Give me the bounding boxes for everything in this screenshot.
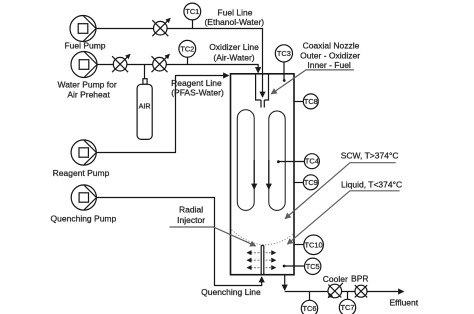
node TC3 dot inside reactor top <box>283 62 286 82</box>
svg-text:(PFAS-Water): (PFAS-Water) <box>171 88 224 98</box>
svg-text:TC6: TC6 <box>303 304 317 313</box>
svg-text:TC5: TC5 <box>306 262 320 271</box>
svg-text:Water Pump for: Water Pump for <box>57 79 116 89</box>
wire TC6 stem <box>309 292 311 301</box>
radial injector arrows left <box>247 253 259 268</box>
svg-text:Oxidizer Line: Oxidizer Line <box>209 42 259 52</box>
wire TC2 stem <box>187 57 189 64</box>
TC10 thermocouple <box>304 235 324 255</box>
TC7 thermocouple <box>339 299 355 314</box>
svg-text:Reagent Pump: Reagent Pump <box>53 168 110 178</box>
coaxial nozzle inner tube <box>261 100 264 108</box>
svg-text:AIR: AIR <box>139 102 151 111</box>
svg-text:SCW, T>374°C: SCW, T>374°C <box>341 151 399 161</box>
valve 2 on oxidizer line <box>152 54 170 72</box>
valve BPR <box>355 285 367 297</box>
wire oxidizer line <box>97 65 258 73</box>
TC2 thermocouple <box>179 40 196 57</box>
node TC8 stem <box>294 101 303 103</box>
TC8 thermocouple <box>303 94 318 109</box>
svg-text:Quenching Pump: Quenching Pump <box>51 214 117 224</box>
wire quenching line pump to reactor bottom <box>97 198 262 286</box>
node TC5 dot and lead <box>283 265 305 268</box>
liquid level dashed curve <box>232 230 295 245</box>
svg-text:(Air-Water): (Air-Water) <box>213 53 254 63</box>
svg-text:Outer - Oxidizer: Outer - Oxidizer <box>300 51 360 61</box>
svg-text:Fuel Pump: Fuel Pump <box>64 41 105 51</box>
TC6 thermocouple <box>301 300 317 314</box>
svg-text:Injector: Injector <box>177 215 205 225</box>
valve on fuel line <box>152 18 170 36</box>
svg-text:TC10: TC10 <box>305 240 323 249</box>
wire TC7 stem <box>347 292 349 300</box>
svg-text:Reagent Line: Reagent Line <box>171 78 222 88</box>
svg-text:TC8: TC8 <box>304 97 318 106</box>
leader Radial Injector <box>170 227 256 246</box>
svg-text:Radial: Radial <box>179 204 203 214</box>
coaxial nozzle outer tube <box>256 74 269 100</box>
svg-text:TC2: TC2 <box>180 44 194 53</box>
svg-text:TC4: TC4 <box>305 157 319 166</box>
svg-text:TC9: TC9 <box>304 178 318 187</box>
TC9 thermocouple <box>303 175 318 190</box>
flow loop right (stadium with down arrow) <box>269 111 285 210</box>
svg-text:Quenching Line: Quenching Line <box>201 287 261 297</box>
svg-text:TC3: TC3 <box>277 49 291 58</box>
TC1 thermocouple <box>184 3 201 20</box>
valve Cooler <box>328 283 343 298</box>
wire reagent line pump to reactor <box>97 76 229 153</box>
wire fuel continues into nozzle (redraw over) <box>262 75 264 98</box>
wire fuel line horizontal + vertical into nozzle <box>96 29 263 98</box>
radial injector tube <box>261 246 264 275</box>
svg-text:Coaxial Nozzle: Coaxial Nozzle <box>303 40 360 50</box>
wire TC1 stem <box>192 20 194 29</box>
svg-text:Air Preheat: Air Preheat <box>67 89 110 99</box>
pump Reagent Pump <box>71 140 96 165</box>
svg-text:Effluent: Effluent <box>389 298 418 308</box>
node TC4 dot and lead <box>277 160 304 163</box>
svg-text:Liquid, T<374°C: Liquid, T<374°C <box>341 179 402 189</box>
pump Quenching Pump <box>71 185 96 210</box>
flow loop left (stadium with down arrow) <box>237 110 254 211</box>
svg-text:Inner - Fuel: Inner - Fuel <box>307 60 351 70</box>
AIR cylinder <box>137 79 152 140</box>
node TC9 stem <box>294 182 303 184</box>
wire effluent horizontal to arrow <box>285 291 404 293</box>
leader Coaxial Nozzle / Inner-Fuel <box>271 70 354 94</box>
node TC10 stem <box>294 244 304 246</box>
pump Fuel Pump <box>70 16 96 42</box>
pump Water Pump for Air Preheat <box>71 52 97 78</box>
svg-text:BPR: BPR <box>351 273 368 283</box>
wire AIR cylinder neck junction <box>144 65 146 79</box>
wire effluent drop from reactor bottom <box>284 275 286 290</box>
TC5 thermocouple <box>305 258 321 274</box>
svg-text:Cooler: Cooler <box>323 274 348 284</box>
valve 1 on oxidizer line <box>112 54 130 72</box>
svg-text:TC7: TC7 <box>341 303 355 312</box>
TC4 thermocouple <box>304 154 319 169</box>
leader SCW <box>285 163 396 219</box>
reactor vessel <box>231 74 295 275</box>
svg-text:(Ethanol-Water): (Ethanol-Water) <box>204 17 264 27</box>
leader Liquid <box>288 191 400 244</box>
radial injector arrows right <box>266 253 276 268</box>
svg-text:TC1: TC1 <box>185 7 199 16</box>
TC3 thermocouple <box>275 45 292 62</box>
